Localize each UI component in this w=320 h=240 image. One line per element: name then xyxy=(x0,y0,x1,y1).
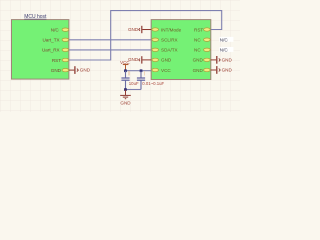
MCU host box U1 xyxy=(12,14,69,79)
ground symbol at MCU GND pin xyxy=(69,66,91,74)
pin RST (MCU pin 4) xyxy=(52,58,69,63)
pin VCC (U2 left pin 5) xyxy=(152,68,171,73)
svg-text:N/C: N/C xyxy=(220,37,229,42)
svg-text:Uart_RX: Uart_RX xyxy=(42,48,60,53)
ground symbol below capacitors xyxy=(120,90,131,106)
capacitor C1 (10uF) xyxy=(121,71,139,90)
label N/C at U2 right pin 3 xyxy=(219,47,233,53)
svg-text:N/C: N/C xyxy=(220,48,229,53)
pin N/C (MCU pin 1) xyxy=(51,28,69,33)
svg-text:GND: GND xyxy=(51,68,62,73)
svg-text:Uart_TX: Uart_TX xyxy=(42,38,59,43)
ground symbol at U2 left pin 1 (INT/Mode) xyxy=(128,26,151,33)
wire VCC rail to U2 VCC pin xyxy=(126,70,152,72)
wire Uart_RX to SDA/TX xyxy=(69,49,151,51)
svg-text:SCL/RX: SCL/RX xyxy=(161,38,178,43)
junction node at VCC/C1 xyxy=(124,69,127,72)
svg-text:GND: GND xyxy=(193,58,204,63)
pin GND (U2 right pin 5) xyxy=(193,68,211,73)
pin SDA/TX (U2 left pin 3) xyxy=(152,48,178,53)
wire capacitor bottom rail xyxy=(126,89,142,91)
pin GND (U2 left pin 4) xyxy=(152,58,172,63)
wire RST net (MCU RST up over to U2 RST) xyxy=(69,11,222,60)
svg-text:SDA/TX: SDA/TX xyxy=(161,48,178,53)
svg-text:GND: GND xyxy=(128,27,139,32)
svg-text:GND: GND xyxy=(222,57,233,62)
pin INT/Mode (U2 left pin 1) xyxy=(152,27,182,32)
sensor module box U2 xyxy=(151,20,211,80)
svg-text:GND: GND xyxy=(80,68,91,73)
pin NC (U2 right pin 2) xyxy=(194,38,210,43)
junction node at C2 tap xyxy=(140,69,143,72)
svg-text:10uF: 10uF xyxy=(129,81,139,86)
svg-text:GND: GND xyxy=(222,68,233,73)
svg-text:MCU host: MCU host xyxy=(24,14,47,20)
wire Uart_TX to SCL/RX xyxy=(69,39,151,41)
svg-text:NC: NC xyxy=(194,48,201,53)
svg-text:INT/Mode: INT/Mode xyxy=(161,27,182,32)
svg-text:GND: GND xyxy=(161,58,172,63)
svg-text:N/C: N/C xyxy=(51,28,60,33)
pin GND (U2 right pin 4) xyxy=(193,58,211,63)
pin RST (U2 right pin 1) xyxy=(194,27,210,32)
VCC power port xyxy=(120,60,130,71)
pin Uart_RX (MCU pin 3) xyxy=(42,48,69,53)
svg-text:RST: RST xyxy=(52,58,61,63)
junction node at ground rail xyxy=(124,88,127,91)
svg-text:GND: GND xyxy=(193,68,204,73)
ground symbol at U2 left pin 4 (GND) xyxy=(128,56,151,63)
ground symbol at U2 right pin 5 xyxy=(211,66,233,74)
pin Uart_TX (MCU pin 2) xyxy=(42,38,68,43)
pin NC (U2 right pin 3) xyxy=(194,48,210,53)
pin SCL/RX (U2 left pin 2) xyxy=(152,38,178,43)
svg-text:0.01~0.1uF: 0.01~0.1uF xyxy=(142,81,164,86)
capacitor C2 (0.01~0.1uF) xyxy=(137,71,165,90)
ground symbol at U2 right pin 4 xyxy=(211,56,233,64)
label N/C at U2 right pin 2 xyxy=(219,37,233,43)
svg-text:GND: GND xyxy=(120,100,131,105)
svg-text:VCC: VCC xyxy=(161,68,171,73)
pin GND (MCU pin 5) xyxy=(51,68,69,73)
svg-text:NC: NC xyxy=(194,38,201,43)
svg-text:RST: RST xyxy=(194,27,203,32)
